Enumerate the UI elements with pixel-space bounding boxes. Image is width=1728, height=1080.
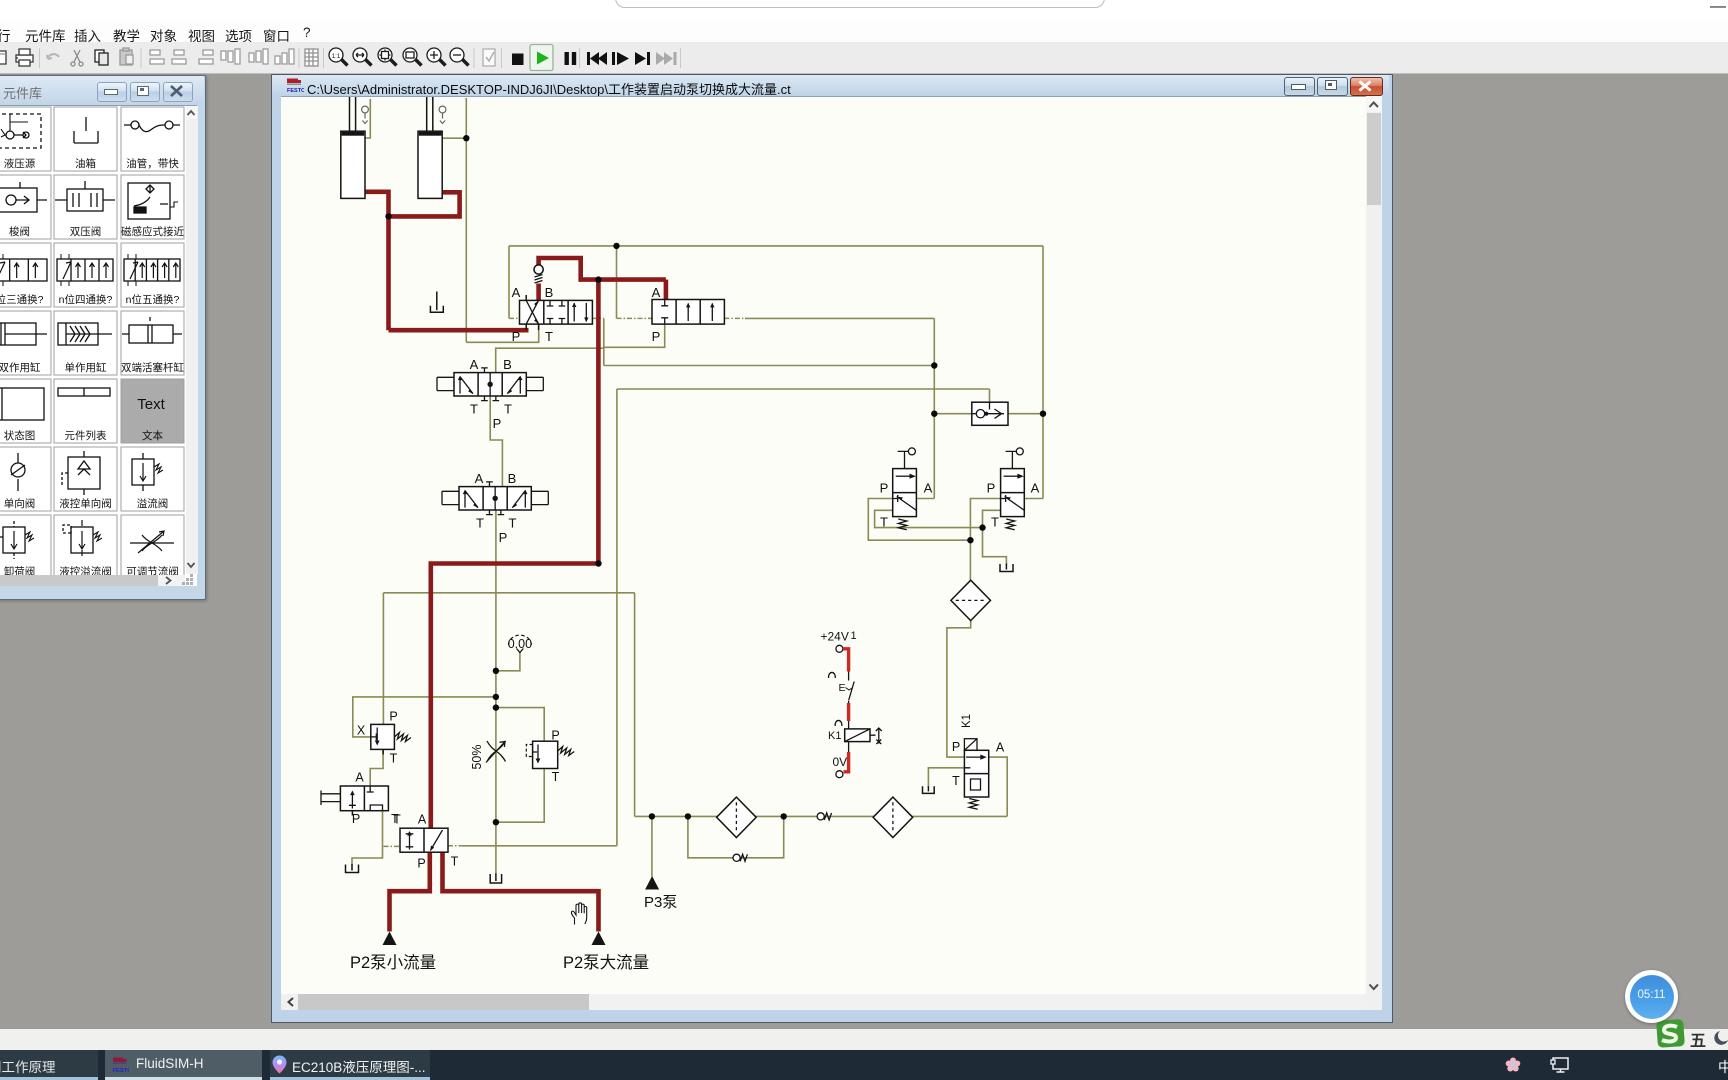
library content bg <box>0 106 197 586</box>
svg-text:P2泵大流量: P2泵大流量 <box>563 953 649 972</box>
node J3 <box>613 243 619 249</box>
window buttons <box>1284 77 1315 97</box>
filter F1 <box>951 580 991 620</box>
wire V5 T loop <box>875 510 983 527</box>
wire x1043 vertical <box>1042 246 1044 499</box>
node J13 <box>493 704 499 710</box>
tank T2 <box>1000 564 1013 572</box>
wire node to filter F1 <box>969 540 971 581</box>
svg-text:E: E <box>839 682 846 694</box>
wire V6 A port <box>1024 498 1043 500</box>
svg-text:状态图: 状态图 <box>4 429 36 442</box>
svg-text:磁感应式接近: 磁感应式接近 <box>121 225 184 238</box>
sogou input bar <box>0 1029 1728 1050</box>
library cell 液控溢流阀 <box>54 515 117 579</box>
cylinder CYL1 <box>341 97 369 198</box>
svg-text:A: A <box>652 285 661 300</box>
FESTO icon <box>286 77 304 94</box>
svg-text:FESTO: FESTO <box>287 88 304 94</box>
svg-text:可调节流阀: 可调节流阀 <box>126 565 179 575</box>
toolbar <box>0 42 1728 74</box>
library cell 位三通换? <box>0 243 51 307</box>
node J17 <box>781 813 787 819</box>
scissors <box>71 50 83 66</box>
red wire main riser x598 <box>596 280 601 564</box>
paste <box>120 48 133 65</box>
svg-text:X: X <box>357 724 366 738</box>
svg-text:1:1: 1:1 <box>332 54 341 60</box>
check valve CV1 above V1 B <box>534 265 543 283</box>
wire filter bypass loop <box>688 816 784 857</box>
taskbar <box>0 1050 1728 1080</box>
spring check CS2 <box>733 854 747 861</box>
svg-text:单作用缸: 单作用缸 <box>65 361 107 374</box>
svg-text:溢流阀: 溢流阀 <box>137 497 169 510</box>
wire relief R2 P <box>496 708 544 742</box>
library palette window <box>0 75 206 600</box>
wire P3 pump riser <box>651 816 653 876</box>
wire V3 P to V4 <box>490 396 502 487</box>
wire relief R2 T <box>496 769 544 823</box>
svg-text:P: P <box>880 481 889 496</box>
P2 big pump <box>592 932 606 946</box>
solenoid valve K1V 2/2 <box>964 739 988 810</box>
red wire y563 to 2/3 valve <box>431 564 599 829</box>
menu bar <box>0 20 1728 42</box>
zoom icons <box>329 48 469 66</box>
svg-text:A: A <box>470 357 479 372</box>
manual 3/2 valve M1 <box>321 786 388 816</box>
svg-text:双端活塞杆缸: 双端活塞杆缸 <box>121 361 184 374</box>
svg-text:K1: K1 <box>961 714 973 728</box>
wire V5 A port <box>916 498 934 500</box>
library cell 元件列表 <box>54 379 117 443</box>
wire x604 pilot vertical <box>603 318 605 365</box>
node J6 <box>931 411 937 417</box>
copy <box>95 50 108 65</box>
top overlay tab (recorder) <box>615 0 1105 8</box>
svg-text:液控单向阀: 液控单向阀 <box>59 497 112 510</box>
content area <box>281 96 1366 995</box>
svg-text:T: T <box>991 515 999 530</box>
tank T4 <box>490 874 501 884</box>
library cell 卸荷阀 <box>0 515 51 579</box>
wire y389 pilot line <box>617 388 990 390</box>
red wire to V1 P <box>389 328 529 333</box>
media <box>587 52 650 65</box>
svg-text:P: P <box>551 729 559 743</box>
svg-text:双作用缸: 双作用缸 <box>0 361 41 374</box>
node J16 <box>685 813 691 819</box>
wire K1 valve T to tank <box>928 768 964 788</box>
library cell 可调节流阀 <box>121 515 184 579</box>
red wire V1 B branch top <box>539 258 666 280</box>
library cell 单作用缸 <box>54 311 117 375</box>
P3 pump <box>645 876 659 890</box>
wire Xvalve pilot X <box>353 697 496 737</box>
task button 1 <box>0 1050 98 1080</box>
library cell n位五通换? <box>121 243 184 307</box>
wire pump bus y816 <box>635 815 1008 817</box>
svg-text:T: T <box>393 813 401 827</box>
library cell n位四通换? <box>54 243 117 307</box>
svg-text:P: P <box>987 481 996 496</box>
svg-text:A: A <box>475 471 484 486</box>
wire main riser x496 <box>495 510 497 875</box>
svg-text:P: P <box>417 857 425 871</box>
valve V2 3-position <box>652 300 724 325</box>
clock overlay <box>1625 970 1678 1023</box>
grid icon <box>305 49 318 66</box>
svg-text:+24V: +24V <box>821 630 849 644</box>
v scrollbar <box>1366 96 1382 994</box>
wire V3 top port up <box>496 348 604 372</box>
valve V6 pressure sequence 2/2 <box>1001 448 1025 530</box>
wire x617 pilot vertical <box>616 389 618 846</box>
P2 small pump <box>383 932 397 946</box>
svg-text:A: A <box>418 813 427 827</box>
library cell 溢流阀 <box>121 447 184 511</box>
svg-text:P: P <box>499 530 508 545</box>
svg-text:n位四通换?: n位四通换? <box>59 293 113 306</box>
library cell 液控单向阀 <box>54 447 117 511</box>
wire V6 T <box>983 510 1001 527</box>
svg-text:油箱: 油箱 <box>75 157 96 170</box>
align icons <box>150 49 294 64</box>
pilot dash V1 right <box>592 317 603 319</box>
svg-text:FESTO: FESTO <box>113 1068 130 1074</box>
svg-text:T: T <box>390 752 398 766</box>
svg-text:P: P <box>493 416 502 431</box>
svg-text:B: B <box>508 471 517 486</box>
svg-text:T: T <box>545 329 553 344</box>
printer <box>16 49 33 66</box>
pilot dash V2 right <box>724 317 746 319</box>
node J2 <box>385 213 391 219</box>
tank T5 <box>346 864 359 873</box>
undo <box>47 54 59 59</box>
wire V2 P down-left <box>604 324 665 347</box>
library cell 双压阀 <box>54 175 117 239</box>
valve V3 mobile 6/3 <box>437 368 543 401</box>
wire y365 to x934 <box>604 365 935 367</box>
wire check valve top port <box>989 389 991 402</box>
svg-text:T: T <box>476 516 484 531</box>
svg-text:文本: 文本 <box>142 429 163 442</box>
svg-text:梭阀: 梭阀 <box>9 225 30 238</box>
wire Xvalve T to 3/2 valve A <box>370 749 383 786</box>
electric 0V terminal <box>836 771 843 778</box>
svg-text:P: P <box>389 710 397 724</box>
node J12 <box>493 694 499 700</box>
svg-text:液控溢流阀: 液控溢流阀 <box>59 565 112 575</box>
svg-text:P3泵: P3泵 <box>644 894 677 911</box>
wire pilot frame left to Xvalve P <box>382 593 384 725</box>
node J5 <box>931 362 937 368</box>
node J1 <box>463 135 469 141</box>
library cell 双作用缸 <box>0 311 51 375</box>
wire node616 down to V2 pilot <box>616 246 618 319</box>
svg-text:n位五通换?: n位五通换? <box>126 293 180 306</box>
wire x934 vertical <box>933 318 935 498</box>
svg-text:K1: K1 <box>828 730 841 742</box>
red wire cyl1 bottom port <box>365 192 389 217</box>
library cell 梭阀 <box>0 175 51 239</box>
svg-text:Text: Text <box>137 396 165 413</box>
svg-text:P: P <box>352 812 360 826</box>
valve V4 mobile 6/3 <box>442 482 548 515</box>
relay coil K1 <box>828 720 882 752</box>
wire vertical x466 return line <box>465 98 467 342</box>
wire 3/2 valve T down <box>352 811 383 865</box>
library cell 双端活塞杆缸 <box>121 311 184 375</box>
check page <box>483 49 495 66</box>
wire V5 P loop <box>868 499 970 541</box>
tank T1 <box>430 292 443 313</box>
partial left icon <box>0 51 6 64</box>
wire check valve left port <box>934 413 972 415</box>
svg-text:1: 1 <box>851 630 857 642</box>
red wire down x388 <box>386 216 391 330</box>
svg-text:0V: 0V <box>833 755 848 769</box>
wire F1 to K1 valve P <box>947 620 971 757</box>
svg-text:液压源: 液压源 <box>4 157 36 170</box>
node J7 <box>1040 411 1046 417</box>
pilot dash V2 left <box>617 317 653 319</box>
node J9 <box>967 537 973 543</box>
svg-text:元件列表: 元件列表 <box>65 429 107 442</box>
adjustable throttle TH1 <box>486 741 506 763</box>
library cell 油管，带快 <box>121 107 184 171</box>
wire left end down to V1 pilot <box>508 246 510 319</box>
red wire to V2 A <box>664 280 669 301</box>
svg-text:B: B <box>503 357 512 372</box>
electric wire upper <box>843 649 849 672</box>
wire check valve right port <box>1008 413 1043 415</box>
task button 3 <box>270 1050 430 1080</box>
svg-text:双压阀: 双压阀 <box>70 225 102 238</box>
svg-text:P: P <box>952 740 960 754</box>
node J11 <box>493 668 499 674</box>
cylinder CYL2 <box>418 97 446 198</box>
h scrollbar <box>281 994 1366 1011</box>
wire right pilot to 2/3 valve <box>462 845 617 847</box>
wire V2 right pilot long <box>745 317 934 319</box>
red wire check to V1 B <box>536 284 541 301</box>
node J14 <box>493 819 499 825</box>
svg-text:T: T <box>509 516 517 531</box>
svg-text:A: A <box>996 741 1005 755</box>
svg-text:P: P <box>652 329 661 344</box>
filter F3 <box>873 797 913 837</box>
svg-text:T: T <box>952 774 960 788</box>
pilot 2-pos valve PV1 <box>400 828 448 852</box>
svg-text:T: T <box>880 515 888 530</box>
electric wire lower <box>844 752 849 772</box>
library cell 单向阀 <box>0 447 51 511</box>
wire cyl2 port to node <box>442 137 466 139</box>
red wire cyl link <box>389 192 460 216</box>
wire tank line right <box>983 528 1007 565</box>
svg-text:B: B <box>545 285 554 300</box>
port labels <box>352 285 1040 871</box>
svg-text:卸荷阀: 卸荷阀 <box>4 565 36 575</box>
svg-text:T: T <box>470 402 478 417</box>
svg-text:0.00: 0.00 <box>508 637 532 651</box>
valve V1 4/3 directional <box>520 295 593 330</box>
pilot-operated check valve CB1 <box>972 402 1008 425</box>
node J4 <box>595 276 601 282</box>
svg-text:A: A <box>924 481 933 496</box>
svg-text:油管，带快: 油管，带快 <box>126 157 179 170</box>
pilot dash V1 left <box>509 317 520 319</box>
switch E1 <box>828 672 854 704</box>
svg-text:P: P <box>512 329 521 344</box>
filter F2 <box>717 797 757 837</box>
relief valve R2 <box>526 741 574 768</box>
wire K1 valve A down <box>989 757 1008 816</box>
display gauge 0.00 <box>508 635 532 652</box>
task button 2 (active) <box>105 1050 262 1080</box>
svg-text:T: T <box>451 855 459 869</box>
play pressed <box>530 45 553 71</box>
main circuit window <box>271 74 1393 1023</box>
svg-text:P2泵小流量: P2泵小流量 <box>350 953 436 972</box>
electric wire mid <box>847 703 850 721</box>
spring check CS1 <box>817 813 831 820</box>
electric +24V terminal <box>836 645 843 652</box>
library cell 油箱 <box>54 107 117 171</box>
valve V5 pressure sequence 2/2 <box>893 448 917 530</box>
svg-text:A: A <box>355 771 364 785</box>
wire V6 P down <box>970 499 1000 541</box>
red wire 2/3 valve T out <box>443 852 599 931</box>
svg-text:单向阀: 单向阀 <box>4 497 36 510</box>
svg-text:A: A <box>512 285 521 300</box>
svg-text:50%: 50% <box>470 744 484 769</box>
hand cursor <box>571 903 586 925</box>
pilot dash 2/3 valve left <box>384 845 401 847</box>
wire top pilot bus y246 <box>509 245 1043 247</box>
library cell 文本 <box>121 379 184 443</box>
tank T3 <box>923 786 935 793</box>
pause <box>565 52 577 65</box>
library cell 状态图 <box>0 379 51 443</box>
v scrollbar <box>185 106 198 574</box>
svg-text:T: T <box>504 402 512 417</box>
wire return to valve V1 T <box>466 324 538 342</box>
node J8 <box>979 524 985 530</box>
wire pilot frame right <box>634 593 636 817</box>
pilot dash 2/3 valve right <box>448 845 463 847</box>
library cell 磁感应式接近 <box>121 175 184 239</box>
svg-text:位三通换?: 位三通换? <box>0 293 44 306</box>
library cell 液压源 <box>0 107 51 171</box>
node J15 <box>649 813 655 819</box>
pilot relief valve RX <box>371 724 411 754</box>
stop <box>512 54 524 66</box>
h scrollbar <box>0 574 185 586</box>
node J10 <box>595 560 601 566</box>
wire pilot frame top <box>383 592 634 594</box>
svg-text:T: T <box>552 770 560 784</box>
tray icons <box>1504 1056 1522 1074</box>
svg-text:A: A <box>1031 481 1040 496</box>
wire cyl1 rod-side up <box>365 99 370 138</box>
wire gauge stem <box>496 652 520 671</box>
red wire 2/3 valve P out <box>390 852 430 931</box>
